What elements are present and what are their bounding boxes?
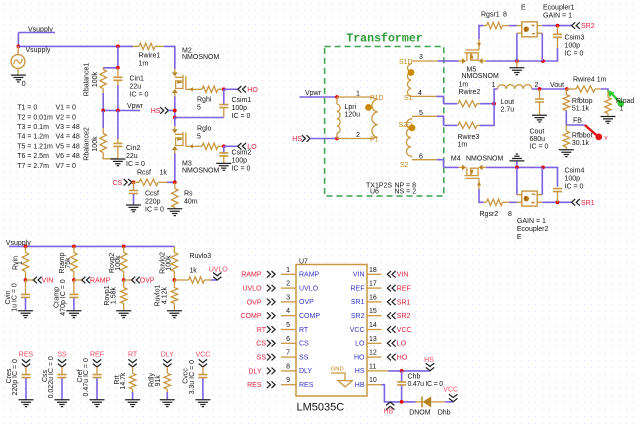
svg-text:VIN: VIN	[42, 278, 54, 285]
svg-text:91k: 91k	[155, 375, 162, 387]
transistor M2 NMOSNOM	[172, 48, 220, 97]
capacitor Csim1	[219, 89, 251, 120]
svg-text:HS: HS	[292, 136, 302, 143]
svg-text:220p: 220p	[145, 199, 161, 206]
svg-text:Vpwr: Vpwr	[305, 90, 322, 97]
ground under Rfbbot	[559, 150, 574, 157]
pin 5 line	[412, 110, 444, 126]
svg-text:E: E	[521, 4, 526, 11]
svg-text:DLY: DLY	[161, 352, 174, 359]
svg-text:0: 0	[22, 81, 26, 88]
svg-text:E: E	[517, 234, 522, 241]
svg-text:V5 = 48: V5 = 48	[56, 143, 80, 150]
wire FB node	[566, 111, 585, 126]
svg-text:100p: 100p	[565, 42, 581, 49]
svg-text:CS: CS	[256, 341, 266, 348]
port DLY	[161, 352, 174, 367]
svg-text:680u: 680u	[530, 136, 546, 143]
svg-text:30.1k: 30.1k	[572, 140, 590, 147]
svg-text:v: v	[605, 135, 608, 141]
svg-text:SS: SS	[57, 352, 67, 359]
wire Vsupply vertical drop	[17, 33, 19, 47]
capacitor Css	[42, 356, 67, 399]
wire Vsupply main horizontal	[18, 45, 133, 47]
svg-text:17: 17	[369, 281, 377, 288]
wire HS to Csim1 bottom	[175, 117, 224, 119]
junction Vpwr right	[116, 109, 120, 113]
junction UVLO node	[173, 278, 177, 282]
svg-text:HB: HB	[384, 408, 394, 415]
wire pin3 to M5 drain	[444, 60, 459, 62]
ground under Cref	[90, 400, 105, 407]
svg-text:NMOSNOM: NMOSNOM	[182, 54, 220, 61]
capacitor Ccsf	[129, 182, 164, 213]
resistor Rghi	[197, 86, 224, 111]
PWL parameter table	[17, 105, 80, 170]
inductor Lout	[492, 82, 539, 114]
svg-text:Ruvlo3: Ruvlo3	[189, 253, 211, 260]
capacitor Csim2	[219, 146, 251, 172]
ground under Rrt	[125, 400, 140, 407]
svg-text:6: 6	[286, 336, 290, 343]
junction Vpwr left	[101, 109, 105, 113]
junction VIN node	[24, 278, 28, 282]
junction Vout	[565, 87, 569, 91]
port OVP	[124, 277, 155, 285]
svg-text:SS: SS	[257, 355, 267, 362]
pin 6 CS	[256, 336, 309, 348]
pin 16 SR1	[351, 294, 411, 306]
port SR1	[572, 199, 595, 207]
svg-text:OVP: OVP	[140, 278, 155, 285]
pin 12 HO	[354, 350, 408, 362]
pin 8 DLY	[248, 363, 312, 375]
svg-text:S2: S2	[400, 162, 409, 169]
capacitor Chb	[397, 371, 443, 402]
junction Rs top	[173, 180, 177, 184]
port UVLO	[209, 267, 229, 281]
resistor Rgsr2	[480, 199, 513, 218]
svg-text:5: 5	[419, 110, 423, 117]
svg-text:12: 12	[369, 350, 377, 357]
ground under Cramp	[66, 311, 81, 318]
svg-text:RT: RT	[257, 327, 267, 334]
svg-text:1: 1	[492, 82, 496, 89]
port HS input	[151, 107, 175, 115]
svg-text:LO: LO	[355, 341, 365, 348]
svg-text:V4 = 48: V4 = 48	[56, 134, 80, 141]
ground under Rdly	[160, 400, 175, 407]
transformer reference labels U6 TX1P2S	[366, 182, 416, 195]
svg-text:T1 = 0: T1 = 0	[17, 105, 37, 112]
svg-text:HS: HS	[355, 368, 365, 375]
svg-text:Csim1: Csim1	[232, 97, 252, 104]
svg-text:U6: U6	[370, 188, 379, 195]
svg-text:3: 3	[286, 294, 290, 301]
wire Ecoupler1 out to SR2	[542, 25, 571, 27]
svg-text:LM5035C: LM5035C	[297, 401, 345, 413]
port HO	[238, 86, 259, 94]
resistor Ruvlo3	[174, 253, 211, 283]
ground under Cvin	[18, 311, 33, 318]
svg-text:Rwire2: Rwire2	[459, 89, 481, 96]
svg-text:UVLO: UVLO	[242, 286, 262, 293]
svg-text:Rgsr1: Rgsr1	[481, 11, 500, 18]
svg-text:100k: 100k	[92, 71, 99, 87]
svg-text:IC = 0: IC = 0	[145, 207, 164, 214]
svg-text:Chb: Chb	[408, 374, 421, 381]
svg-text:14: 14	[369, 322, 377, 329]
svg-text:Rgsr2: Rgsr2	[480, 211, 499, 218]
svg-text:HO: HO	[354, 354, 365, 361]
svg-text:Ecoupler2: Ecoupler2	[517, 226, 549, 233]
svg-text:51.1k: 51.1k	[572, 106, 590, 113]
svg-text:COMP: COMP	[241, 313, 262, 320]
wire LO stub	[224, 145, 238, 147]
svg-text:T2 = 0.01m: T2 = 0.01m	[17, 114, 53, 121]
pin 11 HS	[355, 363, 389, 375]
svg-text:14.7k: 14.7k	[120, 372, 127, 390]
svg-text:0.47u IC = 0: 0.47u IC = 0	[408, 381, 444, 388]
pin 2 UVLO	[242, 281, 318, 293]
op-amp U7 body	[296, 259, 367, 414]
svg-text:7: 7	[286, 350, 290, 357]
transistor M5 NMOSNOM	[459, 39, 499, 80]
svg-text:CS: CS	[299, 341, 309, 348]
junction Rvin top	[24, 245, 28, 249]
svg-text:V1 = 0: V1 = 0	[56, 105, 77, 112]
pin 10 HB	[355, 377, 382, 389]
svg-text:GAIN = 1: GAIN = 1	[543, 12, 572, 19]
wire rail to Csim3 bottom	[543, 48, 558, 61]
port VCC at diode	[443, 387, 458, 402]
svg-text:IC = 0: IC = 0	[565, 183, 584, 190]
wire M3 source to CS node	[174, 154, 176, 183]
svg-text:0.47u IC = 0: 0.47u IC = 0	[83, 358, 90, 396]
svg-text:Rbalance2: Rbalance2	[83, 127, 90, 161]
svg-text:NMOSNOM: NMOSNOM	[462, 73, 500, 80]
resistor Rvin	[12, 246, 28, 280]
wire Rbalance1 to Vpwr	[102, 93, 104, 111]
svg-text:T3 = 0.1m: T3 = 0.1m	[17, 124, 49, 131]
svg-text:1: 1	[620, 106, 624, 113]
transistor M4 NMOSNOM	[451, 156, 504, 190]
resistor Rovp1	[104, 280, 127, 311]
junction rail ground SR1	[515, 166, 519, 170]
svg-text:SR1: SR1	[581, 200, 595, 207]
wire Lout to Vout	[532, 88, 567, 90]
svg-text:Ecoupler1: Ecoupler1	[543, 4, 575, 11]
pin 3 OVP	[247, 294, 314, 306]
junction primary bottom	[335, 137, 339, 141]
node Vpwr wire	[103, 103, 143, 111]
port HS at IC	[424, 357, 434, 371]
svg-text:V2 = 0: V2 = 0	[56, 114, 77, 121]
svg-text:IC = 0: IC = 0	[565, 50, 584, 57]
svg-text:RT: RT	[299, 327, 309, 334]
ground under Ccsf	[126, 205, 141, 212]
svg-text:2.7u: 2.7u	[501, 107, 515, 114]
svg-text:75k: 75k	[65, 257, 72, 269]
wire M5 source rail	[486, 60, 543, 62]
svg-text:GND: GND	[331, 367, 344, 373]
svg-text:1m: 1m	[459, 81, 469, 88]
svg-text:HB: HB	[355, 382, 365, 389]
svg-text:10: 10	[369, 377, 377, 384]
svg-text:220p IC = 0: 220p IC = 0	[12, 359, 19, 395]
port SR2	[572, 22, 595, 30]
port REF	[90, 352, 104, 367]
svg-text:Transformer: Transformer	[346, 33, 423, 46]
resistor Rbalance1	[83, 63, 106, 97]
svg-text:T4 = 1.2m: T4 = 1.2m	[17, 134, 49, 141]
svg-text:RT: RT	[128, 352, 138, 359]
svg-text:11: 11	[369, 363, 376, 370]
junction Cin1 top	[116, 66, 120, 70]
node Vsupply label stub	[18, 27, 55, 34]
svg-text:SR2: SR2	[397, 313, 411, 320]
capacitor Cres	[6, 359, 31, 399]
svg-text:SR2: SR2	[581, 23, 595, 30]
svg-text:8: 8	[286, 363, 290, 370]
svg-text:SS: SS	[299, 354, 309, 361]
svg-text:RAMP: RAMP	[299, 272, 320, 279]
svg-text:Cout: Cout	[530, 129, 545, 136]
pin 4 COMP	[241, 308, 321, 320]
svg-text:2: 2	[286, 281, 290, 288]
svg-text:16: 16	[369, 294, 377, 301]
junction at source top	[17, 45, 21, 49]
wire diode to VCC port	[445, 401, 453, 403]
svg-text:SR1: SR1	[351, 299, 365, 306]
svg-text:RES: RES	[19, 352, 34, 359]
junction primary top	[335, 95, 339, 99]
svg-text:SR2: SR2	[351, 313, 365, 320]
wire HO stub	[224, 88, 238, 90]
pin 15 SR2	[351, 308, 411, 320]
pin 17 REF	[351, 281, 411, 293]
svg-text:100k: 100k	[166, 255, 173, 271]
svg-text:Rfbbot: Rfbbot	[572, 133, 593, 140]
svg-text:S1D: S1D	[399, 59, 413, 66]
svg-text:OVP: OVP	[247, 299, 262, 306]
junction LO node	[222, 144, 226, 148]
svg-text:Rs: Rs	[184, 191, 193, 198]
capacitor Cin2	[113, 111, 145, 169]
svg-text:100k: 100k	[92, 136, 99, 152]
svg-text:Rcsf: Rcsf	[137, 170, 151, 177]
wire Rcsf to Rs top	[167, 181, 175, 183]
wire Ecoupler2 out to SR1	[542, 201, 571, 203]
svg-text:M4: M4	[451, 156, 461, 163]
svg-text:UVLO: UVLO	[299, 285, 319, 292]
svg-text:22u: 22u	[130, 83, 142, 90]
svg-text:Lout: Lout	[501, 99, 515, 106]
svg-text:M3: M3	[182, 160, 192, 167]
capacitor Cref	[77, 358, 102, 399]
ground under Cvcc	[195, 400, 210, 407]
svg-text:Csim3: Csim3	[565, 34, 585, 41]
resistor Rwire4	[567, 76, 607, 92]
junction Csim4 bottom	[556, 200, 560, 204]
svg-text:RES: RES	[247, 382, 262, 389]
svg-text:T7 = 2.7m: T7 = 2.7m	[17, 163, 49, 170]
resistor Rglo	[197, 126, 224, 150]
resistor Rramp	[59, 246, 77, 280]
pin 2 P1	[337, 132, 379, 144]
junction OVP node	[122, 278, 126, 282]
svg-text:0.022u IC = 0: 0.022u IC = 0	[48, 356, 55, 398]
svg-text:T5 = 1.21m: T5 = 1.21m	[17, 143, 53, 150]
svg-text:1: 1	[17, 261, 24, 265]
svg-text:DNOM: DNOM	[409, 409, 431, 416]
svg-text:1: 1	[356, 90, 360, 97]
svg-text:1k: 1k	[160, 170, 168, 177]
S1 polarity dot	[408, 69, 415, 76]
pin 14 VCC	[350, 322, 412, 334]
svg-text:OVP: OVP	[299, 299, 314, 306]
svg-text:IC = 0: IC = 0	[530, 144, 549, 151]
ground under Rload	[601, 117, 616, 124]
svg-text:VCC: VCC	[196, 352, 211, 359]
svg-text:DLY: DLY	[299, 368, 312, 375]
svg-text:V3 = 48: V3 = 48	[56, 124, 80, 131]
svg-text:1: 1	[286, 267, 290, 274]
svg-text:5: 5	[286, 322, 290, 329]
wire Rgsr2 to Ecoupler2	[509, 201, 517, 203]
wire Rwire3 up to Lout node	[480, 104, 494, 126]
svg-text:Vpwr: Vpwr	[127, 103, 144, 110]
voltage source Vsupply	[11, 46, 51, 75]
svg-text:8: 8	[503, 11, 507, 18]
capacitor Cvcc	[183, 360, 208, 400]
svg-text:Rglo: Rglo	[197, 126, 212, 133]
resistor Rfbbot	[563, 125, 592, 150]
port LO	[238, 143, 257, 151]
wire M4 gate down	[479, 189, 484, 202]
primary winding	[371, 97, 378, 139]
ground under Cout	[532, 115, 547, 122]
junction rail ground	[515, 59, 519, 63]
port VIN	[26, 277, 54, 285]
svg-text:1m: 1m	[458, 141, 468, 148]
svg-text:RAMP: RAMP	[241, 272, 262, 279]
resistor Rfbtop	[563, 89, 593, 113]
svg-text:3: 3	[419, 54, 423, 61]
node Vsupply rail	[6, 240, 175, 247]
pin 9 RES	[247, 377, 314, 389]
junction Rramp top	[72, 245, 76, 249]
ground under Ruvlo1	[167, 311, 182, 318]
svg-text:4: 4	[418, 90, 422, 97]
pin 4 line	[410, 90, 444, 104]
svg-text:100p: 100p	[565, 175, 581, 182]
svg-text:Vout: Vout	[550, 82, 564, 89]
wire HS node to M3 drain	[174, 118, 176, 127]
svg-text:470p IC = 0: 470p IC = 0	[60, 279, 67, 315]
resistor Rrt	[114, 367, 136, 400]
svg-text:REF: REF	[90, 352, 104, 359]
transistor M3 NMOSNOM	[172, 126, 220, 175]
svg-text:HS: HS	[424, 357, 434, 364]
port RT	[128, 352, 138, 367]
svg-text:VCC: VCC	[350, 327, 365, 334]
svg-text:15: 15	[369, 308, 377, 315]
resistor Rwire2	[444, 81, 481, 106]
svg-text:SR1: SR1	[397, 299, 411, 306]
svg-text:4.12k: 4.12k	[161, 286, 168, 304]
svg-text:Lpri: Lpri	[345, 104, 357, 111]
pin 1 RAMP	[241, 267, 319, 279]
resistor Rload	[605, 92, 635, 117]
wire Cin1 to Vpwr	[117, 85, 119, 111]
pin 13 LO	[355, 336, 407, 348]
svg-text:6: 6	[419, 154, 423, 161]
wire M4 source rail	[486, 167, 557, 186]
svg-text:Csim2: Csim2	[232, 150, 252, 157]
svg-text:HS: HS	[151, 108, 161, 115]
junction HO node	[222, 87, 226, 91]
resistor Rgsr1	[481, 11, 509, 28]
svg-text:COMP: COMP	[299, 313, 320, 320]
svg-text:DLY: DLY	[248, 368, 261, 375]
svg-text:1m: 1m	[139, 61, 149, 68]
junction Csim3 top	[556, 24, 560, 28]
svg-text:U7: U7	[299, 259, 308, 266]
ground under Rovp1	[116, 311, 131, 318]
inductor Lpri	[337, 97, 360, 139]
resistor Rcsf	[132, 170, 167, 186]
ground GND symbol inside IC	[331, 367, 353, 387]
svg-text:NS = 2: NS = 2	[395, 188, 417, 195]
junction RAMP node	[72, 278, 76, 282]
svg-text:40m: 40m	[184, 199, 198, 206]
ground under Rs	[167, 209, 182, 216]
svg-text:T6 = 2.5m: T6 = 2.5m	[17, 153, 49, 160]
transformer enclosure box	[325, 47, 444, 197]
secondary winding S1	[399, 59, 413, 102]
svg-text:1k: 1k	[189, 267, 197, 274]
svg-text:1.58k: 1.58k	[111, 286, 118, 304]
svg-text:NMOSNOM: NMOSNOM	[182, 168, 220, 175]
svg-text:Ccsf: Ccsf	[145, 191, 159, 198]
svg-text:IC = 0: IC = 0	[232, 166, 251, 173]
port RAMP	[74, 277, 111, 285]
ground under Cres	[19, 400, 34, 407]
port CS	[113, 179, 132, 187]
svg-text:IC = 0: IC = 0	[232, 113, 251, 120]
resistor Ruvlo1	[155, 280, 178, 311]
node Vpwr wire to primary	[300, 90, 338, 97]
svg-text:13: 13	[369, 336, 377, 343]
ground under Cin2	[110, 159, 125, 166]
voltage probe on FB	[585, 125, 608, 141]
svg-text:GAIN = 1: GAIN = 1	[517, 218, 546, 225]
junction Csim1 bottom wire	[173, 116, 177, 120]
ground 0 under source	[11, 75, 26, 88]
svg-text:HO: HO	[397, 355, 408, 362]
junction Rovp2 top	[122, 245, 126, 249]
junction Cout top	[538, 87, 542, 91]
resistor Rbalance2	[83, 111, 118, 161]
port SS	[57, 352, 67, 367]
svg-text:VIN: VIN	[397, 272, 409, 279]
wire Rwire1 to M2 drain	[164, 46, 175, 69]
pin 3 line	[412, 54, 444, 61]
svg-text:REF: REF	[397, 286, 411, 293]
svg-text:LO: LO	[397, 341, 407, 348]
svg-text:9: 9	[286, 377, 290, 384]
